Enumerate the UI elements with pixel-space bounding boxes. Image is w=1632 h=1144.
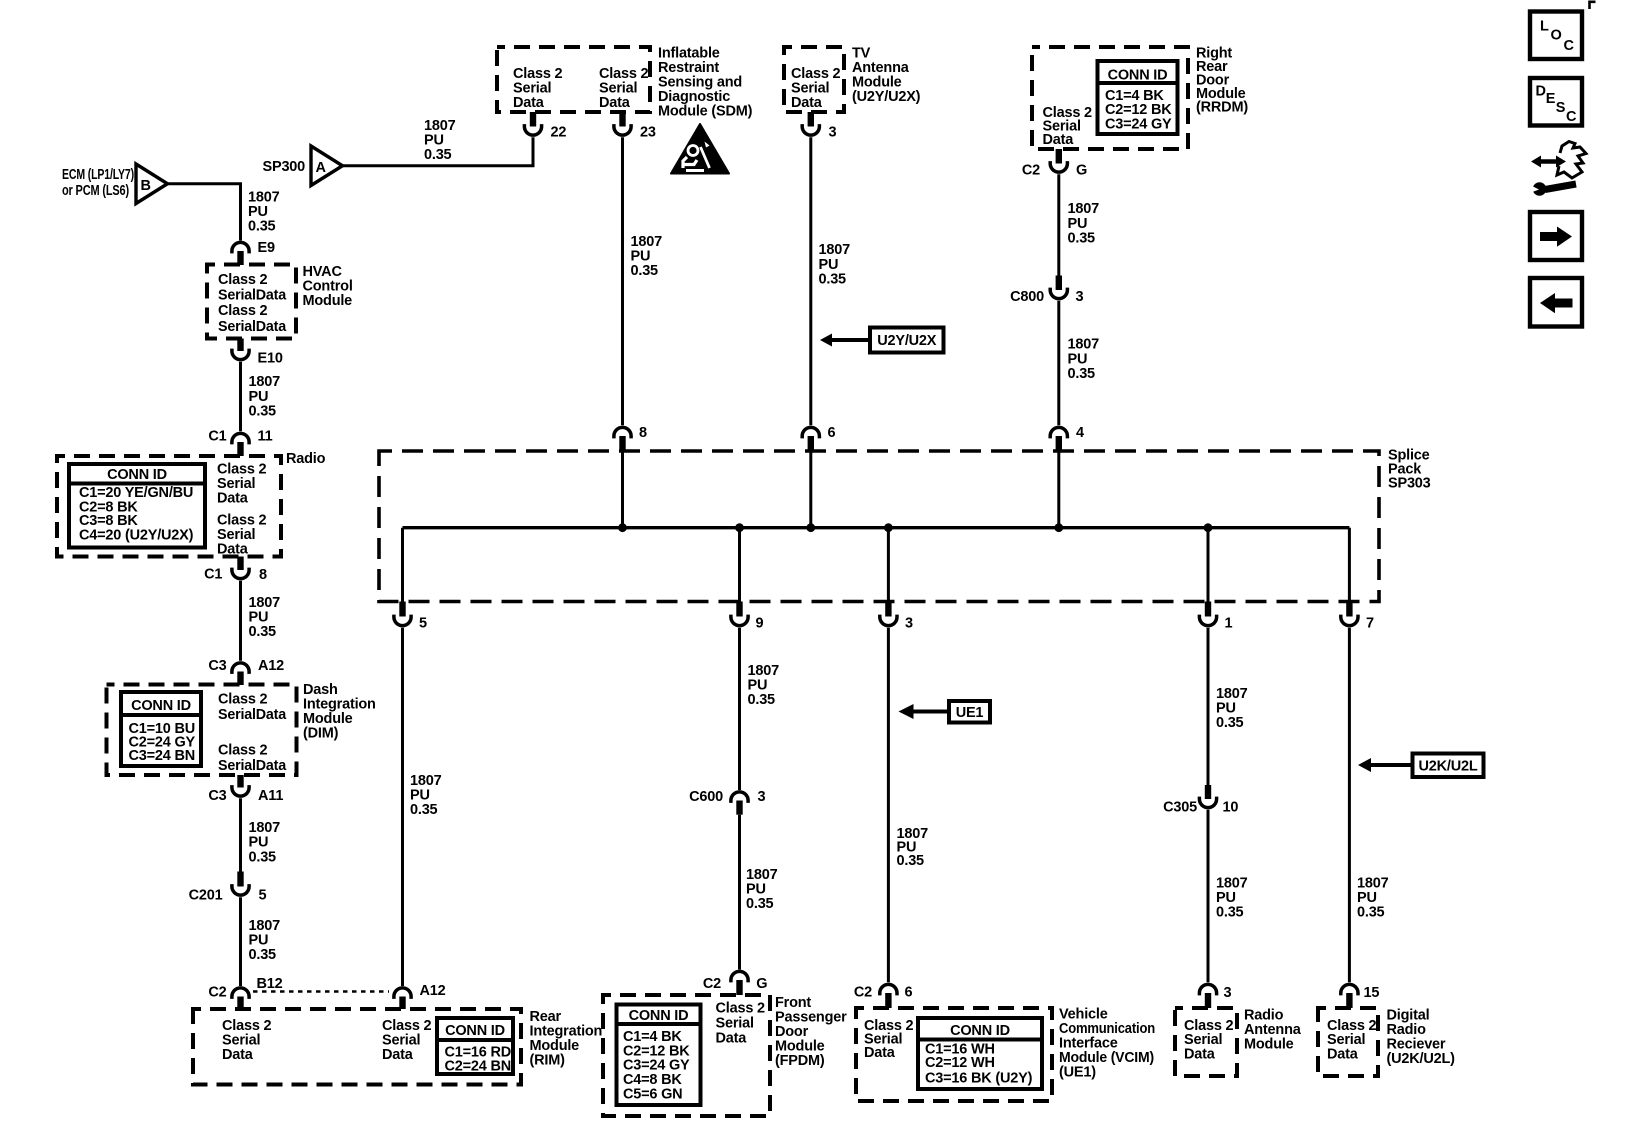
svg-text:11: 11	[258, 429, 273, 445]
svg-text:0.35: 0.35	[248, 219, 276, 235]
svg-text:C: C	[1566, 109, 1577, 125]
svg-text:Radio: Radio	[286, 451, 326, 467]
svg-text:Module: Module	[303, 293, 353, 309]
svg-text:PU: PU	[631, 249, 651, 265]
svg-text:0.35: 0.35	[1357, 905, 1385, 921]
svg-text:1807: 1807	[1068, 201, 1100, 217]
svg-text:0.35: 0.35	[1068, 366, 1096, 382]
svg-text:5: 5	[419, 616, 427, 632]
svg-text:7: 7	[1366, 616, 1374, 632]
svg-text:(U2Y/U2X): (U2Y/U2X)	[852, 89, 921, 105]
svg-text:(RRDM): (RRDM)	[1196, 100, 1248, 116]
svg-text:G: G	[756, 976, 767, 992]
svg-text:Data: Data	[791, 95, 823, 111]
svg-text:SerialData: SerialData	[218, 758, 287, 774]
svg-text:E10: E10	[258, 351, 283, 367]
svg-text:(FPDM): (FPDM)	[775, 1053, 825, 1069]
svg-text:9: 9	[756, 616, 764, 632]
svg-text:B12: B12	[257, 976, 283, 992]
svg-text:6: 6	[905, 985, 913, 1001]
svg-text:3: 3	[905, 616, 913, 632]
svg-text:0.35: 0.35	[1068, 231, 1096, 247]
svg-text:4: 4	[1076, 425, 1084, 441]
svg-text:0.35: 0.35	[631, 263, 659, 279]
svg-text:Data: Data	[513, 95, 545, 111]
svg-text:PU: PU	[249, 389, 269, 405]
svg-text:15: 15	[1364, 985, 1380, 1001]
svg-text:1807: 1807	[249, 820, 281, 836]
svg-text:0.35: 0.35	[748, 692, 776, 708]
svg-text:(RIM): (RIM)	[530, 1053, 566, 1069]
svg-text:0.35: 0.35	[1216, 905, 1244, 921]
svg-text:B: B	[141, 178, 151, 194]
svg-text:0.35: 0.35	[1216, 715, 1244, 731]
svg-text:Data: Data	[222, 1047, 254, 1063]
svg-text:0.35: 0.35	[249, 947, 277, 963]
svg-text:C2: C2	[1022, 163, 1040, 179]
svg-text:3: 3	[1076, 289, 1084, 305]
svg-text:1: 1	[1225, 616, 1233, 632]
svg-text:S: S	[1556, 100, 1566, 116]
svg-text:1807: 1807	[249, 595, 281, 611]
svg-text:5: 5	[259, 888, 267, 904]
svg-text:ECM (LP1/LY7): ECM (LP1/LY7)	[62, 167, 134, 183]
svg-text:G: G	[1076, 163, 1087, 179]
svg-text:1807: 1807	[1068, 337, 1100, 353]
svg-text:PU: PU	[819, 257, 839, 273]
svg-text:L: L	[1540, 19, 1549, 35]
svg-text:3: 3	[758, 789, 766, 805]
svg-text:C600: C600	[689, 789, 723, 805]
svg-text:SP303: SP303	[1388, 476, 1431, 492]
svg-text:Module (SDM): Module (SDM)	[658, 104, 753, 120]
svg-text:C201: C201	[189, 888, 223, 904]
svg-text:0.35: 0.35	[249, 624, 277, 640]
svg-text:(U2K/U2L): (U2K/U2L)	[1387, 1051, 1456, 1067]
svg-text:Data: Data	[1184, 1046, 1216, 1062]
svg-text:U2K/U2L: U2K/U2L	[1418, 758, 1477, 774]
svg-text:PU: PU	[249, 610, 269, 626]
svg-text:Data: Data	[599, 95, 631, 111]
svg-text:1807: 1807	[249, 374, 281, 390]
svg-text:C4=20 (U2Y/U2X): C4=20 (U2Y/U2X)	[79, 528, 194, 544]
svg-text:SerialData: SerialData	[218, 288, 287, 304]
svg-text:C1: C1	[204, 567, 222, 583]
svg-text:C3=24 BN: C3=24 BN	[129, 748, 196, 764]
svg-text:CONN ID: CONN ID	[131, 698, 191, 714]
svg-text:Class 2: Class 2	[218, 692, 268, 708]
svg-text:E9: E9	[258, 240, 275, 256]
svg-text:O: O	[1551, 28, 1562, 44]
svg-text:SP300: SP300	[263, 159, 306, 175]
svg-text:C2: C2	[854, 985, 872, 1001]
svg-text:(UE1): (UE1)	[1059, 1065, 1096, 1081]
svg-text:C3: C3	[208, 788, 226, 804]
svg-text:23: 23	[640, 125, 656, 141]
svg-text:Data: Data	[716, 1031, 748, 1047]
svg-text:Data: Data	[217, 542, 249, 558]
svg-text:10: 10	[1223, 800, 1239, 816]
svg-text:CONN ID: CONN ID	[107, 467, 167, 483]
svg-text:C3=24 GY: C3=24 GY	[1105, 117, 1172, 133]
svg-text:SerialData: SerialData	[218, 319, 287, 335]
svg-text:1807: 1807	[631, 234, 663, 250]
svg-text:C2: C2	[703, 976, 721, 992]
svg-text:0.35: 0.35	[249, 849, 277, 865]
svg-text:CONN ID: CONN ID	[445, 1023, 505, 1039]
svg-text:PU: PU	[248, 204, 268, 220]
svg-text:Class 2: Class 2	[218, 272, 268, 288]
svg-text:0.35: 0.35	[746, 896, 774, 912]
svg-text:CONN ID: CONN ID	[629, 1008, 689, 1024]
svg-text:Class 2: Class 2	[716, 1001, 766, 1017]
svg-text:(DIM): (DIM)	[303, 726, 339, 742]
svg-text:CONN ID: CONN ID	[950, 1023, 1010, 1039]
svg-text:22: 22	[551, 125, 567, 141]
svg-text:0.35: 0.35	[424, 147, 452, 163]
svg-text:A: A	[316, 160, 327, 176]
svg-text:8: 8	[259, 567, 267, 583]
svg-text:C2=12 WH: C2=12 WH	[925, 1055, 995, 1071]
svg-text:Module: Module	[1244, 1037, 1294, 1053]
svg-text:Data: Data	[1043, 132, 1075, 148]
svg-text:or PCM (LS6): or PCM (LS6)	[62, 183, 129, 199]
svg-text:Class 2: Class 2	[218, 303, 268, 319]
svg-text:1807: 1807	[819, 242, 851, 258]
svg-text:Serial: Serial	[716, 1016, 754, 1032]
svg-text:Data: Data	[382, 1047, 414, 1063]
svg-text:3: 3	[829, 125, 837, 141]
svg-text:A12: A12	[420, 983, 446, 999]
svg-text:C3=16 BK (U2Y): C3=16 BK (U2Y)	[925, 1071, 1033, 1087]
svg-text:6: 6	[828, 425, 836, 441]
svg-text:C1: C1	[208, 429, 226, 445]
svg-text:C305: C305	[1163, 800, 1197, 816]
svg-text:PU: PU	[249, 835, 269, 851]
svg-text:U2Y/U2X: U2Y/U2X	[877, 333, 937, 349]
svg-text:UE1: UE1	[956, 705, 984, 721]
svg-text:D: D	[1536, 84, 1546, 100]
svg-text:0.35: 0.35	[249, 404, 277, 420]
svg-text:0.35: 0.35	[897, 853, 925, 869]
svg-text:E: E	[1546, 91, 1556, 107]
svg-text:C: C	[1564, 38, 1575, 54]
svg-text:0.35: 0.35	[410, 802, 438, 818]
svg-text:8: 8	[639, 425, 647, 441]
svg-text:C2=24 BN: C2=24 BN	[445, 1059, 512, 1075]
svg-text:Data: Data	[1327, 1046, 1359, 1062]
svg-text:PU: PU	[424, 133, 444, 149]
svg-text:Class 2: Class 2	[218, 743, 268, 759]
svg-text:1807: 1807	[248, 190, 280, 206]
svg-text:3: 3	[1224, 985, 1232, 1001]
svg-text:C5=6 GN: C5=6 GN	[623, 1087, 682, 1103]
svg-text:C3: C3	[208, 658, 226, 674]
svg-text:PU: PU	[1068, 216, 1088, 232]
svg-text:Data: Data	[217, 491, 249, 507]
svg-text:CONN ID: CONN ID	[1108, 68, 1168, 84]
svg-text:C2: C2	[208, 985, 226, 1001]
svg-text:Data: Data	[864, 1045, 896, 1061]
svg-text:PU: PU	[1068, 351, 1088, 367]
svg-text:A12: A12	[258, 658, 284, 674]
svg-text:SerialData: SerialData	[218, 707, 287, 723]
svg-text:0.35: 0.35	[819, 272, 847, 288]
svg-text:A11: A11	[258, 788, 283, 804]
svg-text:C800: C800	[1010, 289, 1044, 305]
svg-text:1807: 1807	[424, 118, 456, 134]
